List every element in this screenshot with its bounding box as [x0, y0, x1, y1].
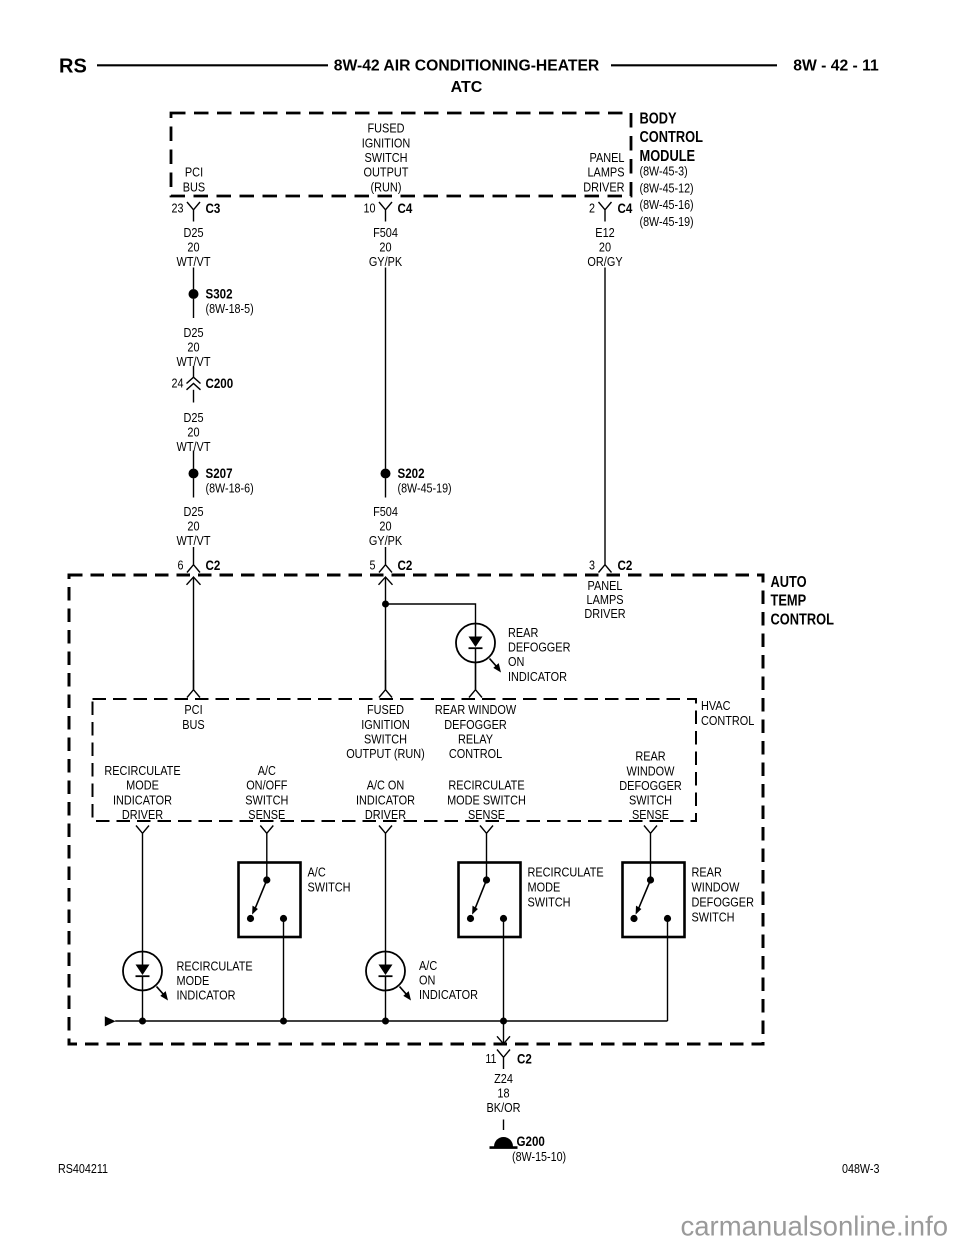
svg-text:ON: ON [508, 654, 524, 669]
recirculate mode switch SW2 [459, 863, 521, 938]
svg-text:(8W-15-10): (8W-15-10) [512, 1149, 566, 1164]
hvac pin fork x=650.5 [644, 826, 657, 846]
svg-text:PCI: PCI [185, 165, 203, 180]
bus continuation arrow [105, 1016, 116, 1026]
header rule left [97, 64, 328, 66]
svg-text:DEFOGGER: DEFOGGER [508, 640, 571, 655]
svg-text:E12: E12 [595, 225, 615, 240]
wire rear window defogger switch sense [650, 845, 652, 880]
wire a/c on/off switch sense [266, 845, 268, 880]
connector pin 2 C4 [599, 202, 612, 222]
connector pin 23 C3 [187, 202, 200, 222]
svg-text:CONTROL: CONTROL [701, 713, 755, 728]
A/C switch SW1 [239, 863, 301, 938]
svg-text:SENSE: SENSE [468, 807, 505, 822]
svg-text:TEMP: TEMP [771, 592, 807, 609]
svg-text:(8W-45-19): (8W-45-19) [398, 481, 452, 496]
body control module boundary [171, 113, 631, 196]
svg-text:GY/PK: GY/PK [369, 533, 402, 548]
svg-text:20: 20 [599, 240, 611, 255]
svg-text:WINDOW: WINDOW [627, 763, 676, 778]
wire PCI bus inside [193, 577, 195, 690]
svg-text:BK/OR: BK/OR [487, 1100, 521, 1115]
svg-text:F504: F504 [373, 504, 398, 519]
connector pin 5 C2 [379, 547, 392, 573]
svg-text:6: 6 [178, 558, 184, 573]
svg-text:C4: C4 [618, 200, 634, 216]
svg-text:SWITCH: SWITCH [364, 150, 407, 165]
svg-text:REAR: REAR [508, 625, 539, 640]
svg-text:5: 5 [370, 558, 376, 573]
svg-text:LAMPS: LAMPS [586, 592, 623, 607]
wire from defogger switch to bus [667, 922, 669, 1021]
svg-text:SWITCH: SWITCH [629, 793, 672, 808]
rear window defogger switch SW3 [623, 863, 685, 938]
svg-text:ATC: ATC [451, 79, 483, 96]
wire D25 segment [193, 268, 195, 290]
svg-text:048W-3: 048W-3 [842, 1161, 880, 1176]
wire F504 [385, 268, 387, 469]
entry arrow pin 5 [379, 577, 393, 585]
svg-text:RECIRCULATE: RECIRCULATE [528, 864, 604, 879]
svg-text:SENSE: SENSE [248, 807, 285, 822]
wire recirc mode indicator driver [142, 845, 144, 951]
svg-text:INDICATOR: INDICATOR [419, 987, 478, 1002]
wire [385, 479, 387, 498]
svg-text:INDICATOR: INDICATOR [177, 987, 236, 1002]
svg-text:A/C ON: A/C ON [367, 778, 405, 793]
svg-text:INDICATOR: INDICATOR [356, 792, 415, 807]
svg-text:20: 20 [379, 240, 391, 255]
junction node [382, 601, 389, 608]
exit arrowhead [497, 1036, 510, 1044]
svg-text:2: 2 [589, 201, 595, 216]
svg-text:SWITCH: SWITCH [308, 879, 351, 894]
svg-text:CONTROL: CONTROL [449, 746, 503, 761]
hvac pin fork x=142.5 [136, 826, 149, 846]
svg-text:DRIVER: DRIVER [584, 606, 626, 621]
svg-text:11: 11 [485, 1051, 496, 1066]
svg-text:3: 3 [589, 558, 595, 573]
ground bus wire [115, 1020, 667, 1022]
svg-text:10: 10 [364, 201, 376, 216]
svg-text:23: 23 [172, 201, 184, 216]
svg-text:(8W-18-6): (8W-18-6) [206, 481, 254, 496]
wire from A/C switch to bus [283, 922, 285, 1021]
svg-text:A/C: A/C [258, 763, 276, 778]
svg-text:G200: G200 [517, 1133, 545, 1149]
svg-text:REAR: REAR [692, 864, 723, 879]
svg-text:HVAC: HVAC [701, 698, 731, 713]
svg-text:PANEL: PANEL [588, 578, 623, 593]
svg-text:RS: RS [59, 56, 87, 78]
svg-text:BODY: BODY [640, 109, 678, 126]
svg-text:RECIRCULATE: RECIRCULATE [448, 778, 524, 793]
svg-text:C200: C200 [206, 375, 234, 391]
wire fused ignition inside [385, 577, 387, 690]
hvac pin fork x=486.5 [480, 826, 493, 846]
svg-text:BUS: BUS [183, 179, 205, 194]
wire [193, 299, 195, 318]
svg-text:S207: S207 [206, 465, 233, 481]
svg-text:WINDOW: WINDOW [692, 879, 741, 894]
svg-text:ON/OFF: ON/OFF [246, 778, 287, 793]
svg-text:WT/VT: WT/VT [177, 254, 212, 269]
svg-text:MODE: MODE [528, 879, 561, 894]
svg-text:C3: C3 [206, 200, 221, 216]
svg-text:F504: F504 [373, 225, 398, 240]
svg-text:D25: D25 [183, 504, 203, 519]
svg-text:SWITCH: SWITCH [245, 792, 288, 807]
svg-text:D25: D25 [183, 325, 203, 340]
svg-text:DEFOGGER: DEFOGGER [619, 778, 682, 793]
svg-text:PCI: PCI [184, 702, 202, 717]
svg-text:PANEL: PANEL [590, 150, 625, 165]
ground G200 [494, 1137, 513, 1147]
svg-text:OR/GY: OR/GY [587, 254, 622, 269]
svg-text:RECIRCULATE: RECIRCULATE [104, 763, 180, 778]
svg-text:20: 20 [187, 240, 199, 255]
svg-text:S202: S202 [398, 465, 425, 481]
wire to ground connector [503, 1021, 505, 1043]
wire recirculate mode switch sense [486, 845, 488, 880]
wire from a/c on LED to bus [385, 991, 387, 1021]
connector pin 6 C2 [187, 547, 200, 573]
svg-text:(8W-45-19): (8W-45-19) [640, 214, 694, 229]
svg-text:20: 20 [187, 340, 199, 355]
connector pin 3 C2 [599, 548, 612, 573]
svg-text:INDICATOR: INDICATOR [113, 792, 172, 807]
svg-text:IGNITION: IGNITION [361, 717, 410, 732]
wire from recirc LED to bus [142, 991, 144, 1021]
wire a/c on indicator driver [385, 845, 387, 951]
svg-text:24: 24 [172, 376, 184, 391]
svg-text:GY/PK: GY/PK [369, 254, 402, 269]
svg-text:D25: D25 [183, 225, 203, 240]
svg-text:20: 20 [379, 519, 391, 534]
svg-text:REAR: REAR [635, 749, 666, 764]
svg-text:(8W-45-16): (8W-45-16) [640, 197, 694, 212]
svg-text:OUTPUT: OUTPUT [364, 165, 409, 180]
wire from recirc switch to bus [503, 922, 505, 1021]
svg-text:carmanualsonline.info: carmanualsonline.info [681, 1211, 949, 1242]
svg-text:CONTROL: CONTROL [771, 610, 835, 627]
svg-text:WT/VT: WT/VT [177, 533, 212, 548]
svg-text:Z24: Z24 [494, 1071, 513, 1086]
LED a/c on indicator [366, 952, 405, 991]
svg-text:INDICATOR: INDICATOR [508, 669, 567, 684]
wire branch to defogger relay indicator [386, 604, 476, 624]
svg-text:S302: S302 [206, 286, 233, 302]
svg-text:FUSED: FUSED [367, 702, 404, 717]
connector pin 11 C2 [497, 1050, 510, 1070]
svg-text:SWITCH: SWITCH [364, 732, 407, 747]
svg-text:LAMPS: LAMPS [587, 165, 624, 180]
svg-text:DRIVER: DRIVER [365, 807, 407, 822]
svg-text:A/C: A/C [419, 958, 437, 973]
svg-text:SWITCH: SWITCH [692, 909, 735, 924]
wire [193, 451, 195, 469]
header rule right [611, 64, 777, 66]
svg-text:MODE SWITCH: MODE SWITCH [447, 792, 526, 807]
svg-text:8W - 42 - 11: 8W - 42 - 11 [793, 57, 879, 74]
wire E12 [604, 268, 606, 549]
hvac control boundary [93, 699, 697, 821]
svg-text:SWITCH: SWITCH [528, 894, 571, 909]
svg-text:20: 20 [187, 425, 199, 440]
svg-text:DEFOGGER: DEFOGGER [692, 894, 755, 909]
svg-text:8W-42 AIR CONDITIONING-HEATER: 8W-42 AIR CONDITIONING-HEATER [334, 57, 600, 74]
svg-text:MODE: MODE [126, 778, 159, 793]
splice S202 [381, 469, 391, 479]
LED recirculate mode indicator [123, 952, 162, 991]
svg-text:FUSED: FUSED [368, 121, 405, 136]
bus junction nodes [139, 1018, 146, 1025]
svg-text:(RUN): (RUN) [371, 179, 402, 194]
svg-text:C2: C2 [398, 557, 413, 573]
svg-text:20: 20 [187, 519, 199, 534]
svg-text:AUTO: AUTO [771, 573, 807, 590]
svg-text:18: 18 [497, 1086, 509, 1101]
svg-text:MODULE: MODULE [640, 147, 696, 164]
hvac pin fork x=385.5 [379, 826, 392, 846]
svg-text:IGNITION: IGNITION [362, 135, 411, 150]
svg-text:OUTPUT (RUN): OUTPUT (RUN) [346, 746, 425, 761]
wire [475, 663, 477, 690]
wire [503, 1120, 505, 1131]
svg-text:CONTROL: CONTROL [640, 128, 704, 145]
svg-text:A/C: A/C [308, 864, 326, 879]
svg-text:DRIVER: DRIVER [122, 807, 164, 822]
entry arrow pin 6 [187, 577, 201, 585]
svg-text:(8W-18-5): (8W-18-5) [206, 301, 254, 316]
svg-text:RECIRCULATE: RECIRCULATE [177, 958, 253, 973]
connector pin 10 C4 [379, 202, 392, 222]
in-line connector 24 C200 [193, 366, 195, 377]
svg-text:BUS: BUS [182, 717, 204, 732]
svg-text:RS404211: RS404211 [58, 1161, 108, 1176]
svg-text:(8W-45-12): (8W-45-12) [640, 180, 694, 195]
svg-text:ON: ON [419, 973, 435, 988]
svg-text:D25: D25 [183, 410, 203, 425]
splice S302 [189, 289, 199, 299]
svg-text:REAR WINDOW: REAR WINDOW [435, 702, 517, 717]
auto temp control boundary [69, 575, 763, 1044]
LED rear defogger on indicator [456, 624, 495, 663]
svg-text:C2: C2 [517, 1050, 532, 1066]
svg-text:RELAY: RELAY [458, 732, 493, 747]
svg-text:C4: C4 [398, 200, 414, 216]
svg-text:SENSE: SENSE [632, 807, 669, 822]
svg-text:C2: C2 [618, 557, 633, 573]
svg-text:MODE: MODE [177, 973, 210, 988]
wire [193, 479, 195, 498]
svg-text:DRIVER: DRIVER [583, 179, 625, 194]
splice S207 [189, 469, 199, 479]
svg-text:(8W-45-3): (8W-45-3) [640, 164, 688, 179]
svg-text:C2: C2 [206, 557, 221, 573]
svg-text:DEFOGGER: DEFOGGER [444, 717, 507, 732]
hvac pin fork x=266.8 [260, 826, 273, 846]
